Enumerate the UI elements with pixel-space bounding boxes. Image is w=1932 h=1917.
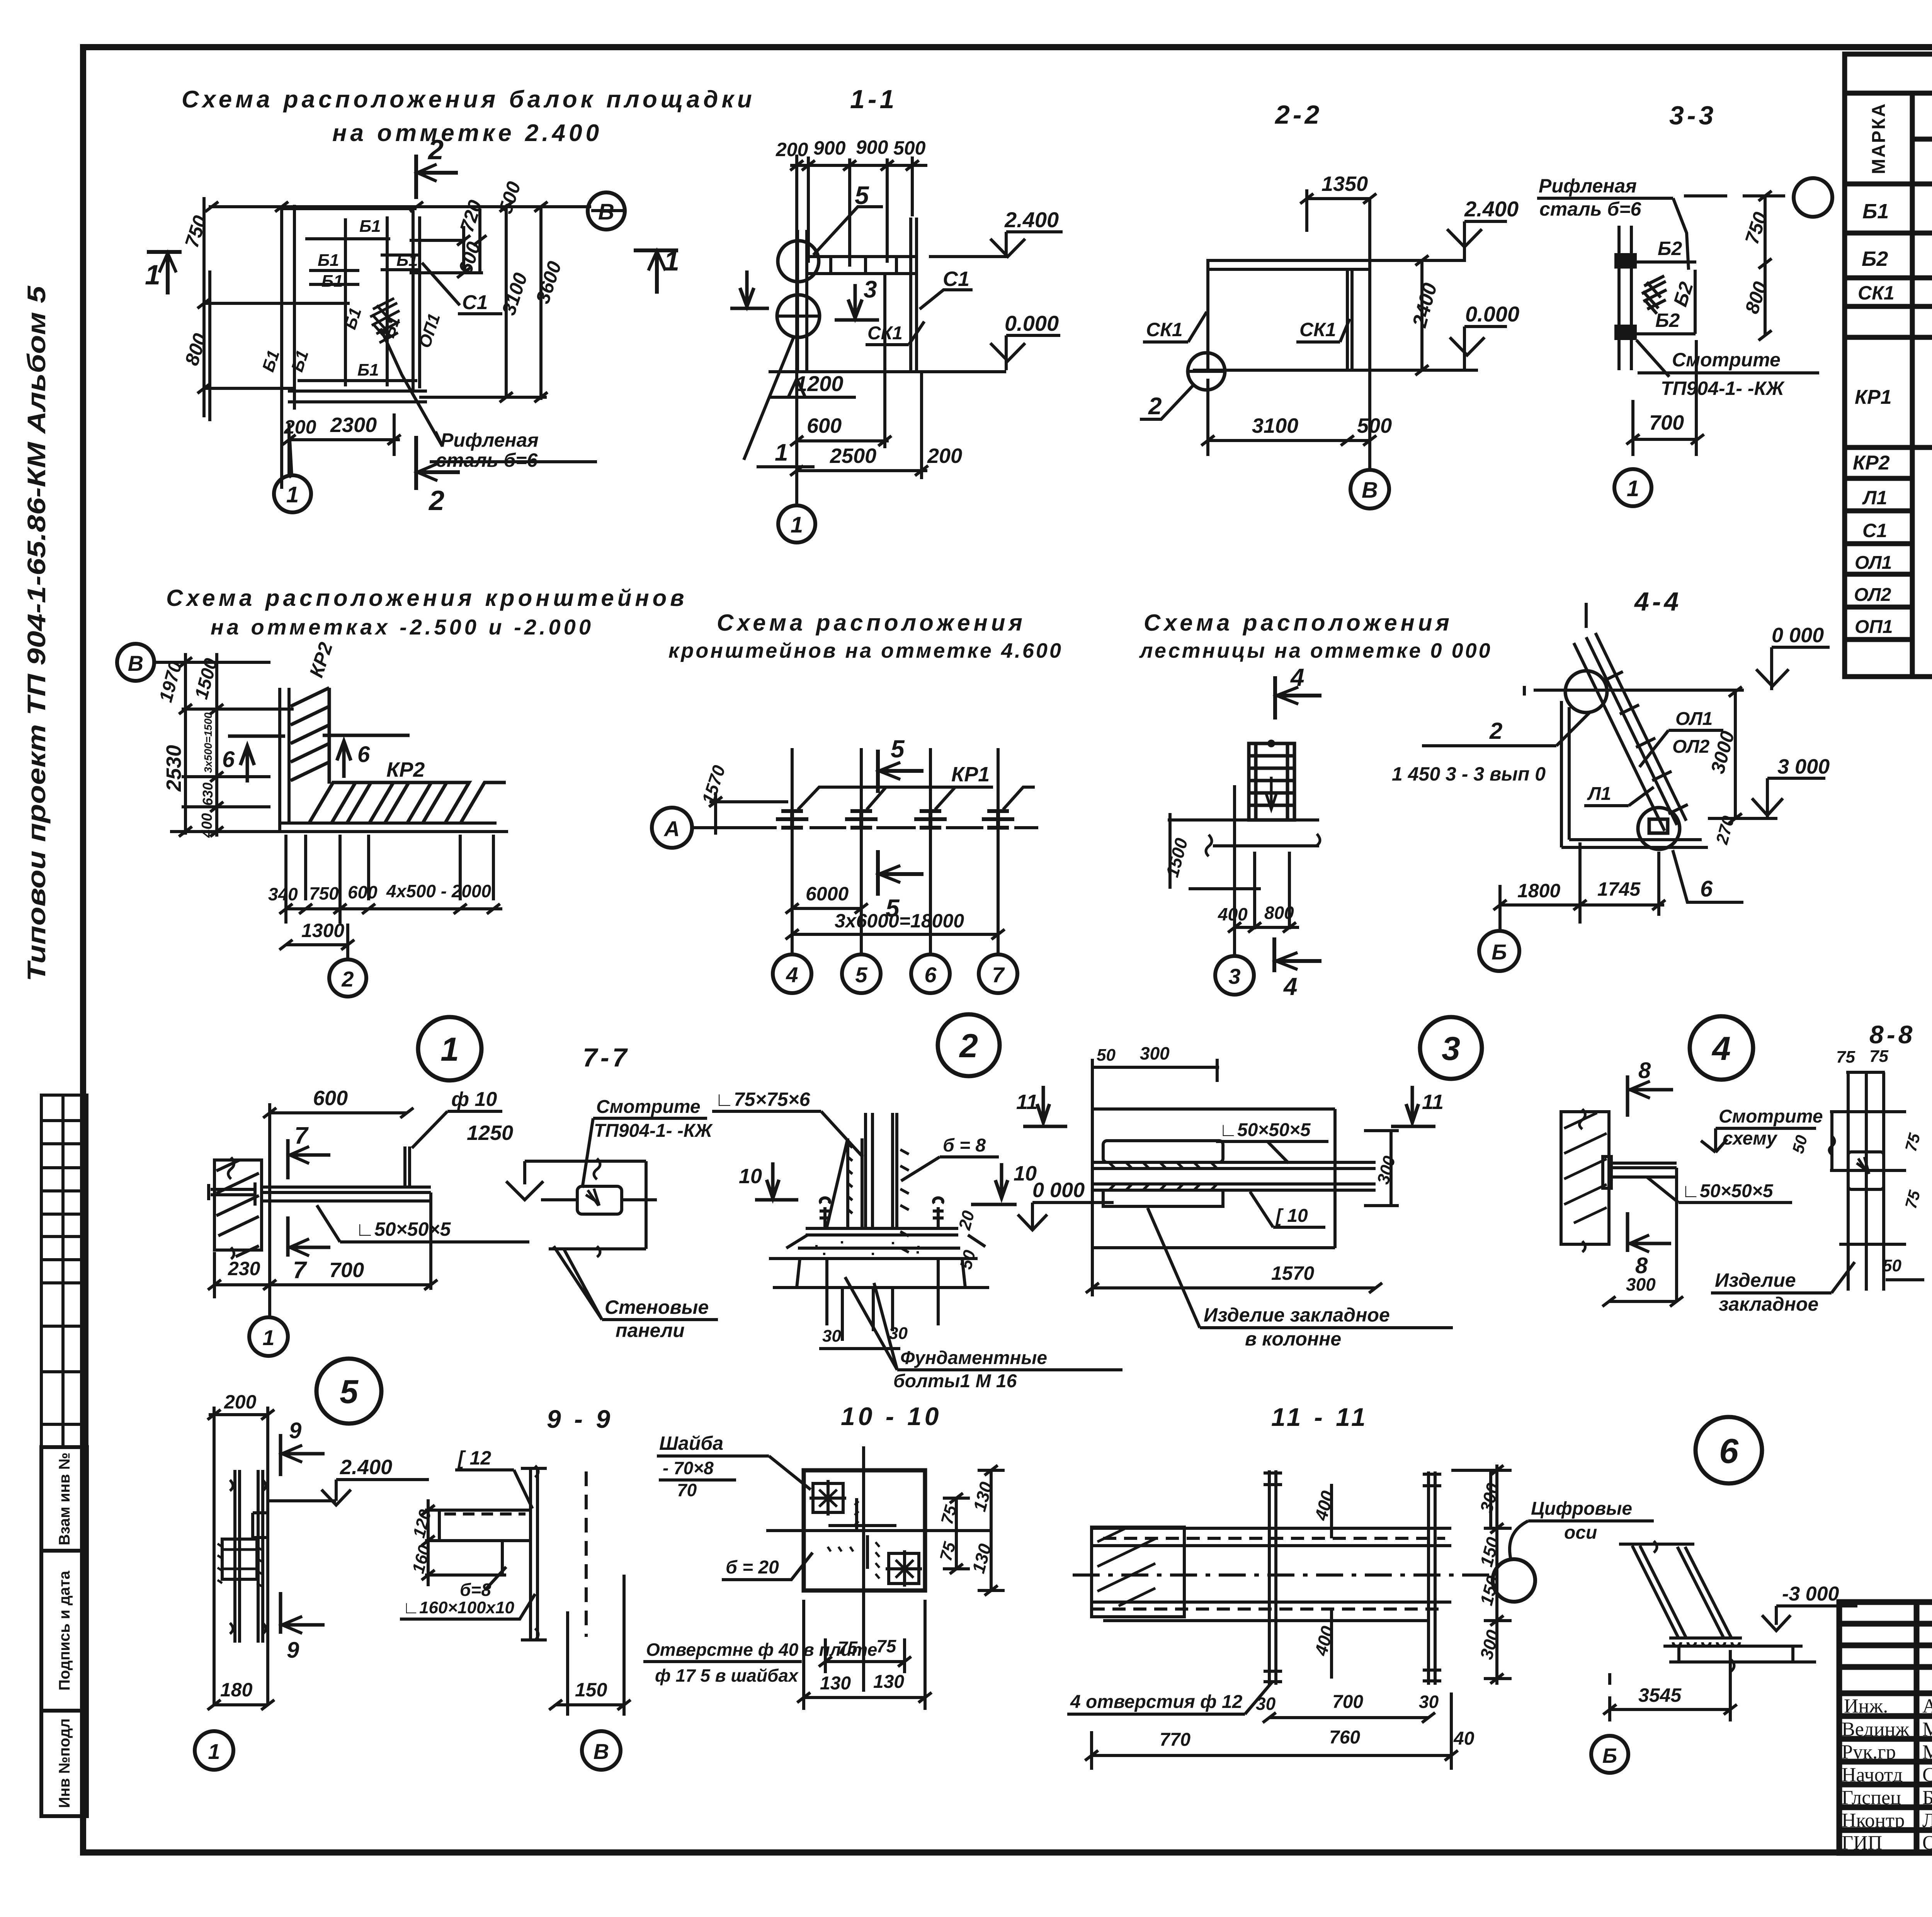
svg-text:2: 2 [1148, 393, 1162, 420]
svg-text:0 000: 0 000 [1032, 1179, 1085, 1202]
joint box [577, 1186, 622, 1214]
s22 right post double [1346, 269, 1349, 370]
svg-text:1800: 1800 [1517, 880, 1560, 902]
svg-text:500: 500 [893, 137, 926, 159]
fig2 axis circle 2 [329, 959, 366, 997]
s44 weld circles [1565, 671, 1607, 713]
svg-text:Инж.: Инж. [1844, 1695, 1888, 1717]
svg-text:2.400: 2.400 [340, 1456, 392, 1479]
s1111 left bolt [1268, 1470, 1271, 1685]
row lines [1845, 231, 1932, 236]
svg-text:Б2: Б2 [1658, 238, 1682, 259]
svg-text:схему: схему [1723, 1128, 1778, 1149]
base plate [1669, 1636, 1742, 1640]
d77 beam [262, 1186, 431, 1189]
angle cross-section [855, 1498, 858, 1531]
dim lines bottom [825, 1660, 905, 1663]
svg-text:-3 000: -3 000 [1782, 1583, 1839, 1605]
svg-text:700: 700 [329, 1259, 364, 1282]
svg-text:С1: С1 [1862, 520, 1887, 541]
below-ground bolt lines [825, 1259, 828, 1325]
callout circle 3 big [1420, 1017, 1482, 1079]
fig1 leader riffled steel [381, 328, 597, 462]
svg-text:Моргунов: Моргунов [1922, 1741, 1932, 1763]
s11 elevation 1200 left [768, 379, 856, 397]
svg-text:1: 1 [440, 1031, 459, 1068]
s99 axis circle В [582, 1731, 621, 1770]
d9 marker 9 bottom [281, 1592, 325, 1634]
svg-text:130: 130 [820, 1673, 851, 1694]
anchor bolts [820, 1198, 830, 1228]
svg-text:Луценко: Луценко [1922, 1810, 1932, 1832]
d77 marker 7 bottom [288, 1216, 330, 1257]
svg-text:3-3: 3-3 [1669, 101, 1716, 130]
svg-text:5: 5 [891, 735, 905, 763]
svg-text:2: 2 [1489, 718, 1502, 744]
svg-text:∟50×50×5: ∟50×50×5 [1682, 1181, 1774, 1201]
svg-text:1: 1 [262, 1325, 274, 1350]
svg-text:500: 500 [1357, 414, 1392, 437]
fig1 section marker 2 top [416, 155, 458, 199]
s22 ground line [1193, 369, 1478, 372]
svg-text:2.400: 2.400 [1004, 208, 1059, 232]
strip bottom [1092, 1246, 1335, 1249]
diagonals [1632, 1546, 1679, 1638]
base plate [806, 1227, 958, 1230]
svg-text:- 70×8: - 70×8 [663, 1458, 714, 1478]
s22 right dim vertical [1420, 260, 1423, 370]
fig4 marker 4 top [1275, 676, 1321, 720]
svg-text:2300: 2300 [330, 413, 377, 437]
fig1 left wall double line [280, 209, 283, 489]
s11 column double line [796, 230, 799, 372]
s11 marker 3 left [730, 270, 769, 309]
s33 hatch scribble [1642, 276, 1667, 314]
svg-text:Рук.гр: Рук.гр [1842, 1741, 1896, 1763]
svg-text:200: 200 [224, 1391, 257, 1413]
svg-text:5: 5 [855, 181, 869, 209]
svg-text:СК1: СК1 [1146, 319, 1183, 340]
s22 dims bottom [1208, 439, 1370, 442]
d77 phi10 rod [403, 1146, 406, 1187]
dim lines right [955, 1498, 958, 1569]
s44 right dim vertical [1734, 692, 1737, 818]
dim 1570 bottom [1092, 1286, 1376, 1289]
svg-text:Смотрите: Смотрите [1719, 1106, 1823, 1127]
s33 empty circle top right [1794, 178, 1832, 217]
svg-text:Схема расположения: Схема расположения [717, 610, 1026, 636]
s88 marker 8 top [1628, 1075, 1673, 1117]
svg-text:130: 130 [873, 1672, 904, 1692]
d77 wall block [214, 1160, 262, 1250]
svg-text:340: 340 [268, 884, 298, 904]
svg-text:180: 180 [220, 1679, 253, 1701]
svg-text:Б: Б [1602, 1744, 1617, 1767]
svg-text:Б1: Б1 [359, 217, 381, 236]
fig2 top level line from circle [154, 661, 270, 664]
s22 elevation 2.400 [1370, 221, 1507, 260]
svg-text:11: 11 [1422, 1090, 1444, 1114]
s33 axis circle 1 [1614, 469, 1651, 506]
s44 label 2 / series leader [1422, 744, 1556, 747]
svg-text:Изделие закладное: Изделие закладное [1204, 1304, 1390, 1326]
d77 axis circle 1 [249, 1317, 288, 1356]
d9 dim 200 top [209, 1413, 269, 1416]
column right weld marks [900, 1150, 909, 1252]
svg-text:2: 2 [341, 967, 354, 991]
svg-text:Рифленая: Рифленая [440, 429, 539, 451]
s1111 center line [1073, 1573, 1492, 1577]
svg-text:Стеновые: Стеновые [605, 1296, 709, 1318]
s11 axis circle 1 [778, 505, 815, 543]
d77 right vertical [429, 1192, 432, 1290]
s33 beams [1635, 260, 1696, 264]
fig1 right dim verticals [462, 226, 465, 270]
svg-text:2.400: 2.400 [1464, 197, 1519, 221]
s22 section circle marker [1188, 353, 1225, 390]
column shaft [864, 1113, 867, 1228]
svg-text:Осташевский: Осташевский [1922, 1832, 1932, 1854]
svg-text:Взам инв №: Взам инв № [56, 1453, 73, 1545]
svg-text:3х500=1500: 3х500=1500 [202, 712, 214, 773]
fig4 base lines [1168, 818, 1319, 822]
svg-text:30: 30 [1419, 1692, 1439, 1712]
svg-text:Смотрите: Смотрите [596, 1097, 701, 1117]
center crosshairs [862, 1446, 865, 1692]
svg-text:лестницы на отметке 0 000: лестницы на отметке 0 000 [1139, 639, 1492, 662]
svg-text:болты1 М 16: болты1 М 16 [893, 1371, 1017, 1391]
svg-text:6: 6 [357, 742, 370, 767]
s99 lower angle [439, 1573, 506, 1577]
margin box Подпись и дата [41, 1551, 87, 1711]
s88 vertical [1675, 1168, 1678, 1301]
svg-text:∟50×50×5: ∟50×50×5 [1219, 1120, 1311, 1140]
strip upper beam lines [1092, 1107, 1335, 1111]
svg-text:200: 200 [927, 444, 962, 468]
svg-text:4: 4 [1711, 1030, 1731, 1067]
s44 elevation 0.000 [1756, 647, 1830, 690]
fig3 grid verticals [791, 748, 794, 955]
svg-text:КР1: КР1 [1855, 386, 1892, 408]
svg-text:230: 230 [228, 1258, 260, 1279]
svg-text:Подпись и дата: Подпись и дата [56, 1570, 73, 1691]
svg-text:Б1: Б1 [321, 272, 343, 291]
svg-text:Начотд: Начотд [1842, 1764, 1903, 1786]
s22 axis circle B [1350, 470, 1389, 509]
s1111 dim lines bottom [1269, 1716, 1429, 1719]
s44 level 0.000 line [1534, 689, 1744, 692]
washer top-left [813, 1483, 843, 1512]
d9 axis verticals [213, 1407, 216, 1705]
fig2 axis circle B [117, 644, 154, 681]
fig4 axis circle 3 [1215, 956, 1254, 995]
svg-text:1: 1 [664, 246, 679, 277]
svg-text:770: 770 [1160, 1730, 1190, 1750]
s44 elevation 3.000 [1752, 778, 1825, 818]
svg-text:Фундаментные: Фундаментные [900, 1348, 1047, 1368]
left margin revision table [41, 1095, 87, 1447]
s88 wall hatched [1561, 1109, 1677, 1301]
svg-text:в колонне: в колонне [1245, 1328, 1341, 1350]
svg-text:6: 6 [222, 747, 235, 772]
svg-text:б = 20: б = 20 [726, 1557, 779, 1578]
svg-text:700: 700 [1649, 411, 1684, 434]
svg-text:9: 9 [289, 1418, 301, 1443]
s33 plates on column [1614, 253, 1637, 269]
fig2 upper bracket hatch series [291, 688, 329, 784]
s11 leader 1 bottom-left [744, 336, 794, 460]
svg-text:Изделие: Изделие [1715, 1269, 1796, 1291]
svg-text:630: 630 [200, 782, 216, 806]
svg-text:В: В [1362, 478, 1378, 503]
d9 marker 9 top [281, 1434, 325, 1476]
svg-text:400: 400 [199, 813, 215, 838]
svg-text:СК1: СК1 [867, 323, 903, 344]
svg-text:Смотрите: Смотрите [1672, 349, 1781, 371]
svg-text:[ 12: [ 12 [457, 1447, 491, 1469]
s44 axis circle Б [1479, 931, 1519, 971]
svg-text:40: 40 [1453, 1728, 1475, 1749]
fig3 axis circles 4 5 6 7 [773, 954, 811, 993]
s11 label 5 leader [813, 207, 883, 255]
fig2 level lines [182, 708, 294, 711]
svg-text:Схема расположения кронштейн: Схема расположения кронштейнов [166, 585, 688, 611]
svg-text:4: 4 [786, 963, 798, 987]
title block [1839, 1602, 1932, 1853]
s1111 axis circle right [1493, 1559, 1535, 1602]
foundation [1669, 1660, 1816, 1664]
svg-text:70: 70 [677, 1480, 697, 1500]
svg-text:50: 50 [1883, 1256, 1901, 1275]
s22 left post [1206, 260, 1209, 370]
s44 wall angle horizontal leg [1561, 846, 1708, 849]
fig3 baseline [692, 826, 777, 829]
fig2 horizontal leg [280, 822, 497, 825]
svg-text:панели: панели [616, 1320, 685, 1341]
svg-text:3 000: 3 000 [1777, 755, 1830, 778]
svg-text:В: В [594, 1739, 609, 1764]
svg-text:Схема расположения: Схема расположения [1144, 610, 1453, 636]
svg-text:75: 75 [1869, 1047, 1888, 1066]
fig1 hatch scribble (riffled steel) [370, 298, 400, 343]
fig1 dim line 800 level [205, 302, 350, 305]
svg-text:1745: 1745 [1597, 878, 1641, 900]
svg-text:СК1: СК1 [1858, 282, 1895, 304]
svg-text:200: 200 [284, 416, 316, 438]
svg-text:200: 200 [776, 139, 808, 160]
strip top dim [1092, 1066, 1219, 1069]
svg-text:Б1: Б1 [318, 251, 339, 270]
svg-text:ОП1: ОП1 [1855, 617, 1893, 637]
fig4 ladder [1249, 743, 1294, 820]
d77 bottom dims [214, 1283, 431, 1286]
s44 stringer treads [1604, 672, 1688, 814]
svg-text:1350: 1350 [1321, 172, 1368, 196]
fig1 bottom dim line [289, 438, 400, 441]
svg-text:закладное: закладное [1719, 1293, 1818, 1315]
s88 marker 8 bottom [1628, 1212, 1671, 1252]
svg-text:ОЛ1: ОЛ1 [1855, 553, 1892, 573]
d9 bracket small [253, 1511, 269, 1514]
svg-text:МАРКА: МАРКА [1869, 102, 1889, 174]
svg-text:7-7: 7-7 [583, 1043, 630, 1072]
svg-text:600: 600 [313, 1087, 348, 1110]
svg-text:8-8: 8-8 [1869, 1020, 1915, 1049]
fig3 axis circle A [652, 808, 692, 848]
svg-text:1: 1 [775, 439, 788, 466]
svg-text:ф 17 5 в шайбах: ф 17 5 в шайбах [655, 1665, 799, 1686]
svg-text:Нконтр: Нконтр [1842, 1810, 1905, 1832]
s33 bottom dim [1633, 438, 1697, 441]
d77 dim 600 [270, 1111, 407, 1114]
s1111 beam top [1092, 1527, 1451, 1530]
fig1 section marker 1 right [634, 250, 678, 294]
svg-text:Б2: Б2 [1862, 247, 1888, 270]
d9 plate with bolts [222, 1539, 257, 1579]
s11 elevation 0.000 [990, 335, 1060, 370]
svg-text:2: 2 [959, 1027, 978, 1065]
svg-text:2: 2 [427, 134, 444, 165]
svg-text:Б: Б [1492, 940, 1507, 964]
fig1 section marker 1 left [147, 252, 182, 294]
svg-text:Боярченко: Боярченко [1922, 1787, 1932, 1809]
s99 channel lines [439, 1509, 531, 1512]
svg-text:1300: 1300 [301, 920, 344, 941]
svg-text:4х500 - 2000: 4х500 - 2000 [386, 881, 492, 901]
fig3 marker 5 top [878, 750, 923, 793]
svg-text:1200: 1200 [795, 371, 844, 396]
s1111 right bolt [1427, 1471, 1430, 1685]
svg-text:на отметке 2.400: на отметке 2.400 [332, 120, 602, 146]
svg-text:10: 10 [739, 1165, 762, 1188]
svg-text:КР1: КР1 [951, 763, 990, 786]
s1111 dim verticals [1330, 1484, 1333, 1538]
svg-text:3: 3 [1442, 1030, 1460, 1067]
d9 axis circle 1 [195, 1731, 233, 1770]
svg-text:0.000: 0.000 [1465, 302, 1519, 326]
s88 right element [1829, 1072, 1924, 1291]
svg-text:Отверстне ф 40 в плите: Отверстне ф 40 в плите [646, 1640, 877, 1660]
s11 top dim line [790, 164, 927, 167]
svg-text:5: 5 [340, 1373, 359, 1410]
dcb marker 10 right [971, 1163, 1017, 1204]
fig4 verticals [1233, 785, 1236, 956]
s22 platform beam double [1206, 259, 1370, 262]
svg-text:600: 600 [348, 882, 378, 902]
svg-text:1: 1 [208, 1739, 220, 1764]
s11 label C1 leader [920, 290, 973, 309]
d9 wall double lines [233, 1470, 236, 1643]
svg-text:Б1: Б1 [396, 251, 418, 270]
svg-text:на отметках -2.500 и -2.00: на отметках -2.500 и -2.000 [211, 615, 594, 639]
s88 bracket [1609, 1162, 1677, 1165]
s1111 right edge plate [1489, 1470, 1492, 1528]
svg-text:ОЛ1: ОЛ1 [1675, 709, 1713, 729]
margin box Взам инв № [41, 1447, 87, 1551]
s11 platform beam [807, 255, 915, 258]
dcb marker 10 left [755, 1162, 798, 1200]
fig1 inner horizontal beams [305, 237, 390, 240]
fig1 top dimension line to axis B [209, 205, 591, 208]
svg-text:сталь б=6: сталь б=6 [1539, 198, 1642, 220]
svg-text:700: 700 [1332, 1692, 1363, 1712]
svg-text:В: В [128, 651, 143, 675]
svg-text:1250: 1250 [467, 1121, 513, 1145]
marker 11 top [1023, 1086, 1067, 1126]
svg-text:6: 6 [1719, 1432, 1739, 1471]
svg-text:50: 50 [1097, 1046, 1116, 1065]
s11 weld circles [778, 241, 819, 282]
svg-text:6: 6 [1700, 876, 1713, 902]
s99 column verticals [529, 1468, 532, 1640]
svg-text:300: 300 [1626, 1274, 1656, 1294]
s11 ground line [769, 370, 1006, 373]
svg-text:400: 400 [1218, 904, 1248, 924]
svg-text:4 отверстия ф 12: 4 отверстия ф 12 [1070, 1692, 1243, 1712]
s22 axis vertical down to circle B [1368, 199, 1371, 469]
panel outline [549, 1160, 646, 1163]
d77 marker 7 top [288, 1139, 330, 1179]
svg-text:6: 6 [924, 963, 937, 987]
svg-text:∟160×100х10: ∟160×100х10 [403, 1598, 515, 1617]
svg-text:ф 10: ф 10 [451, 1088, 497, 1111]
s33 column double [1617, 226, 1621, 370]
svg-text:Андреева: Андреева [1922, 1695, 1932, 1717]
svg-text:7: 7 [992, 963, 1005, 987]
svg-text:6000: 6000 [806, 883, 849, 905]
svg-text:1: 1 [145, 260, 160, 291]
vedomost table grid [1845, 54, 1932, 677]
s33 dim vertical [1764, 196, 1767, 335]
svg-text:Саакьянц: Саакьянц [1922, 1764, 1932, 1786]
svg-text:сталь б=6: сталь б=6 [436, 449, 538, 471]
svg-text:8: 8 [1638, 1058, 1651, 1083]
dimension tick marks [179, 160, 1932, 1761]
svg-text:3100: 3100 [1252, 414, 1298, 437]
svg-text:2: 2 [428, 485, 444, 516]
svg-text:4: 4 [1283, 973, 1298, 1000]
s11 right post [909, 218, 912, 372]
fig1 top beam [282, 207, 417, 210]
svg-text:2530: 2530 [162, 745, 185, 792]
gusset with teeth [846, 1138, 849, 1228]
svg-text:1: 1 [791, 512, 803, 538]
svg-text:б = 8: б = 8 [943, 1135, 986, 1156]
fig1 axis line down to circle 1 [289, 476, 291, 477]
fig4 marker 4 bottom [1274, 937, 1321, 972]
svg-text:11: 11 [1016, 1090, 1038, 1114]
svg-text:3: 3 [1228, 964, 1240, 988]
svg-text:∟75×75×6: ∟75×75×6 [715, 1089, 811, 1110]
fig1 bottom platform beams [288, 390, 427, 393]
svg-text:30: 30 [822, 1327, 841, 1345]
dim 300 right [1364, 1129, 1399, 1132]
fig1 section marker 2 bottom [416, 436, 460, 490]
svg-text:9 - 9: 9 - 9 [547, 1405, 613, 1433]
s44 bottom dim [1500, 903, 1664, 907]
svg-text:3545: 3545 [1638, 1684, 1682, 1706]
svg-text:11 - 11: 11 - 11 [1271, 1403, 1369, 1431]
svg-text:30: 30 [889, 1324, 908, 1343]
svg-text:4-4: 4-4 [1634, 587, 1682, 616]
svg-text:150: 150 [575, 1679, 607, 1701]
svg-text:1 450 3 - 3 вып 0: 1 450 3 - 3 вып 0 [1392, 763, 1546, 785]
svg-text:В: В [598, 199, 614, 225]
fig1 inner beams vertical [344, 218, 347, 386]
svg-text:Типовои проект ТП 904-1-65.8: Типовои проект ТП 904-1-65.86-КМ Альбом … [22, 285, 51, 981]
fig3 brackets (4 pcs) [776, 811, 1014, 828]
fig4 dims [1235, 926, 1299, 929]
